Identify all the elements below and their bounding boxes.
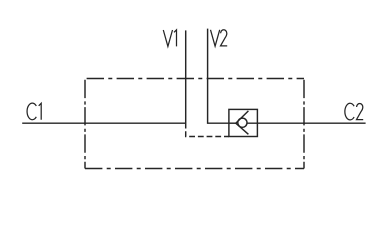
label C2 [345, 103, 363, 120]
wire C1 main line [22, 122, 186, 124]
label V2 [211, 30, 228, 46]
check valve ball [238, 118, 247, 127]
label V1 [163, 30, 176, 47]
wire inside valve box left [229, 122, 236, 124]
wire V1 vertical line [185, 30, 187, 128]
check valve seat [236, 111, 249, 134]
wire V2 vertical line with elbow [208, 29, 229, 124]
wire C2 main line from valve [247, 122, 366, 124]
wire pilot line (dashed) [186, 131, 229, 136]
label C1 [27, 103, 41, 120]
check valve box [229, 109, 258, 136]
component envelope (phantom dash-dot box) [85, 79, 304, 169]
